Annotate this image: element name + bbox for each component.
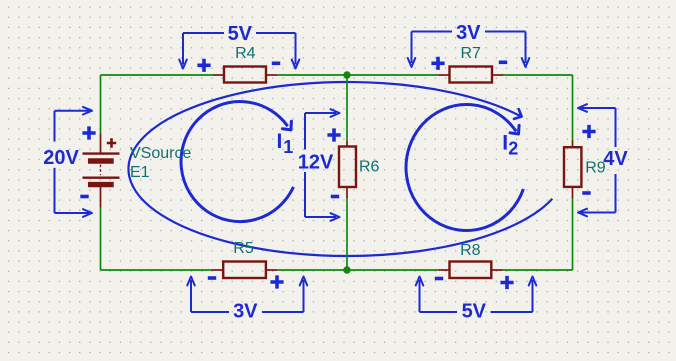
svg-text:12V: 12V (298, 152, 334, 174)
svg-text:VSource: VSource (130, 145, 191, 162)
svg-text:5V: 5V (462, 301, 487, 323)
svg-text:I: I (502, 132, 508, 155)
svg-text:E1: E1 (130, 164, 150, 181)
svg-text:2: 2 (508, 138, 518, 158)
svg-text:1: 1 (283, 137, 293, 157)
svg-text:R7: R7 (460, 45, 481, 62)
svg-text:5V: 5V (228, 23, 253, 45)
svg-text:R6: R6 (359, 159, 380, 176)
svg-text:I: I (277, 130, 283, 153)
svg-text:4V: 4V (603, 148, 628, 170)
svg-text:20V: 20V (43, 147, 79, 169)
svg-text:R5: R5 (233, 240, 254, 257)
svg-text:3V: 3V (233, 300, 258, 322)
svg-text:R8: R8 (460, 242, 481, 259)
svg-text:R4: R4 (235, 45, 256, 62)
svg-text:3V: 3V (456, 22, 481, 44)
